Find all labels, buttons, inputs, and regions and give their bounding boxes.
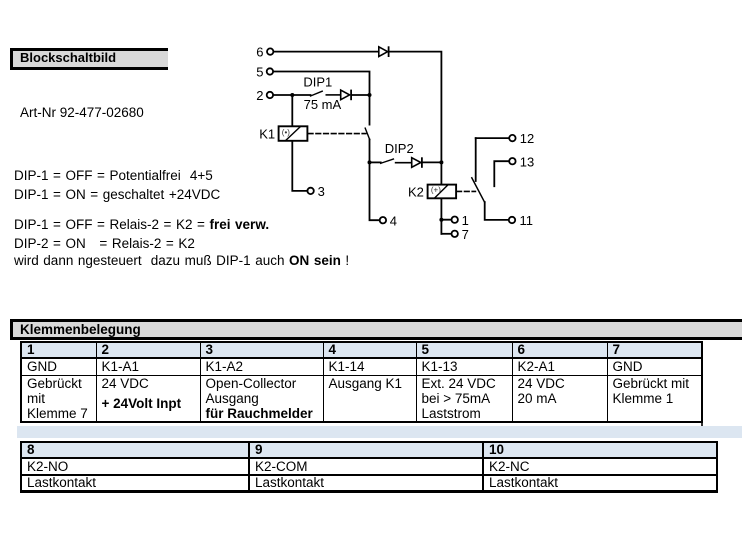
wire node A down to relay contact K1: [369, 95, 371, 125]
junction on terminal-2 wire to relay coil K1: [290, 93, 294, 97]
diode D2: [412, 157, 422, 168]
svg-text:K1: K1: [259, 126, 275, 141]
article number: [20, 104, 144, 121]
table frame stub at right edge: [701, 421, 703, 427]
terminal table 2: [20, 441, 718, 493]
terminal 12: [509, 131, 534, 146]
wire from coil K1 to terminal 3: [292, 141, 307, 191]
svg-text:(•): (•): [282, 128, 290, 137]
relay contact K2 fixed wire from terminal 12: [475, 138, 477, 181]
svg-text:2: 2: [256, 88, 263, 103]
svg-text:K2: K2: [408, 184, 424, 199]
svg-text:12: 12: [520, 131, 534, 146]
svg-text:75 mA: 75 mA: [304, 97, 342, 112]
relay contact K1 blade: [365, 128, 370, 140]
title box Blockschaltbild: [10, 48, 168, 70]
terminal 13: [509, 154, 534, 169]
svg-text:6: 6: [256, 45, 263, 60]
Klemmenbelegung bar: [10, 319, 742, 340]
wire to terminal 12: [476, 137, 509, 139]
terminal 1: [452, 213, 469, 228]
svg-text:11: 11: [520, 213, 534, 228]
svg-text:7: 7: [462, 227, 469, 242]
svg-text:(+): (+): [431, 186, 441, 195]
terminal 13 stub wire: [494, 161, 509, 186]
wire from diode D3 to K2 branch (corner down): [390, 52, 442, 185]
switch DIP1 blade: [311, 91, 323, 96]
wire to terminal 7: [441, 233, 451, 235]
wire from terminal 6 to diode D3: [274, 51, 379, 53]
svg-text:4: 4: [390, 213, 397, 228]
terminal 3: [307, 184, 324, 199]
svg-text:DIP1: DIP1: [303, 74, 332, 89]
junction dot at terminal 1 branch: [439, 218, 443, 222]
svg-text:1: 1: [462, 213, 469, 228]
DIP description text block: [14, 166, 349, 270]
wire from terminal 5 down to node A: [273, 72, 369, 94]
terminal 5: [256, 65, 273, 80]
terminal 7: [452, 227, 469, 242]
wire from coil K2 down to terminals 1 and 7: [441, 198, 451, 233]
wire from switch DIP1 to diode D1: [326, 94, 340, 96]
relay coil K2 box: [428, 185, 457, 199]
svg-text:3: 3: [318, 184, 325, 199]
junction dot node B (DIP2 branch): [368, 160, 372, 164]
diode D3: [379, 46, 389, 57]
wire from contact K2 to terminal 11: [485, 202, 509, 220]
terminal 6: [256, 45, 273, 60]
relay coil K1 wire from junction: [291, 95, 293, 126]
terminal 2: [256, 88, 273, 103]
node A junction dot: [368, 93, 372, 97]
switch DIP2 blade: [381, 159, 394, 163]
relay coil K1 box: [279, 126, 308, 141]
terminal 4: [380, 213, 397, 228]
diode D1: [341, 90, 351, 101]
terminal 11: [509, 213, 533, 228]
svg-text:13: 13: [520, 154, 534, 169]
dashed link from coil K2 to contact K2: [457, 190, 476, 192]
relay contact K2 blade: [472, 178, 485, 203]
terminal table 1: [20, 341, 703, 423]
wire from diode D2 to node C: [423, 161, 442, 163]
wire from switch DIP2 to diode D2: [396, 162, 412, 164]
blue strip: [17, 426, 742, 438]
wire from terminal 2 to switch DIP1: [273, 94, 310, 96]
svg-text:DIP2: DIP2: [385, 141, 414, 156]
node C junction dot on K2 branch: [439, 160, 443, 164]
wire from contact K1 down to terminal 4: [370, 140, 380, 221]
svg-text:5: 5: [256, 65, 263, 80]
wire node B to switch DIP2: [370, 161, 381, 163]
dashed link from coil K1 to contact K1: [308, 133, 366, 135]
wire from diode D1 to node A: [352, 94, 370, 96]
